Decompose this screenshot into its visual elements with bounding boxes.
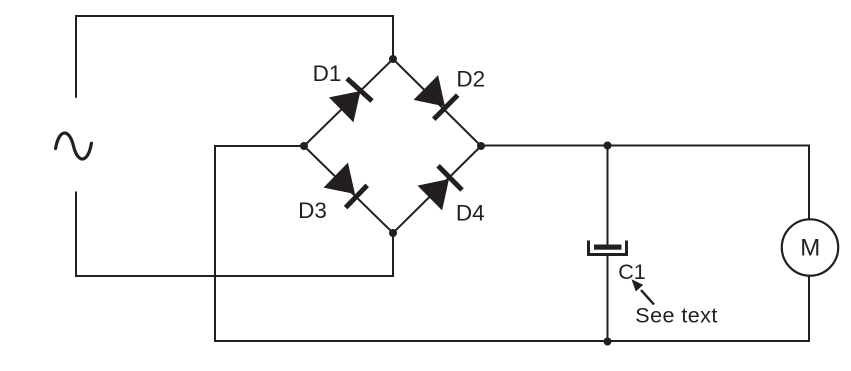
svg-text:D3: D3	[298, 198, 327, 223]
svg-text:C1: C1	[618, 260, 645, 284]
svg-text:D1: D1	[313, 61, 342, 86]
svg-text:See text: See text	[635, 304, 717, 328]
svg-text:M: M	[800, 235, 820, 262]
svg-text:D4: D4	[456, 200, 485, 225]
svg-text:D2: D2	[456, 67, 485, 92]
